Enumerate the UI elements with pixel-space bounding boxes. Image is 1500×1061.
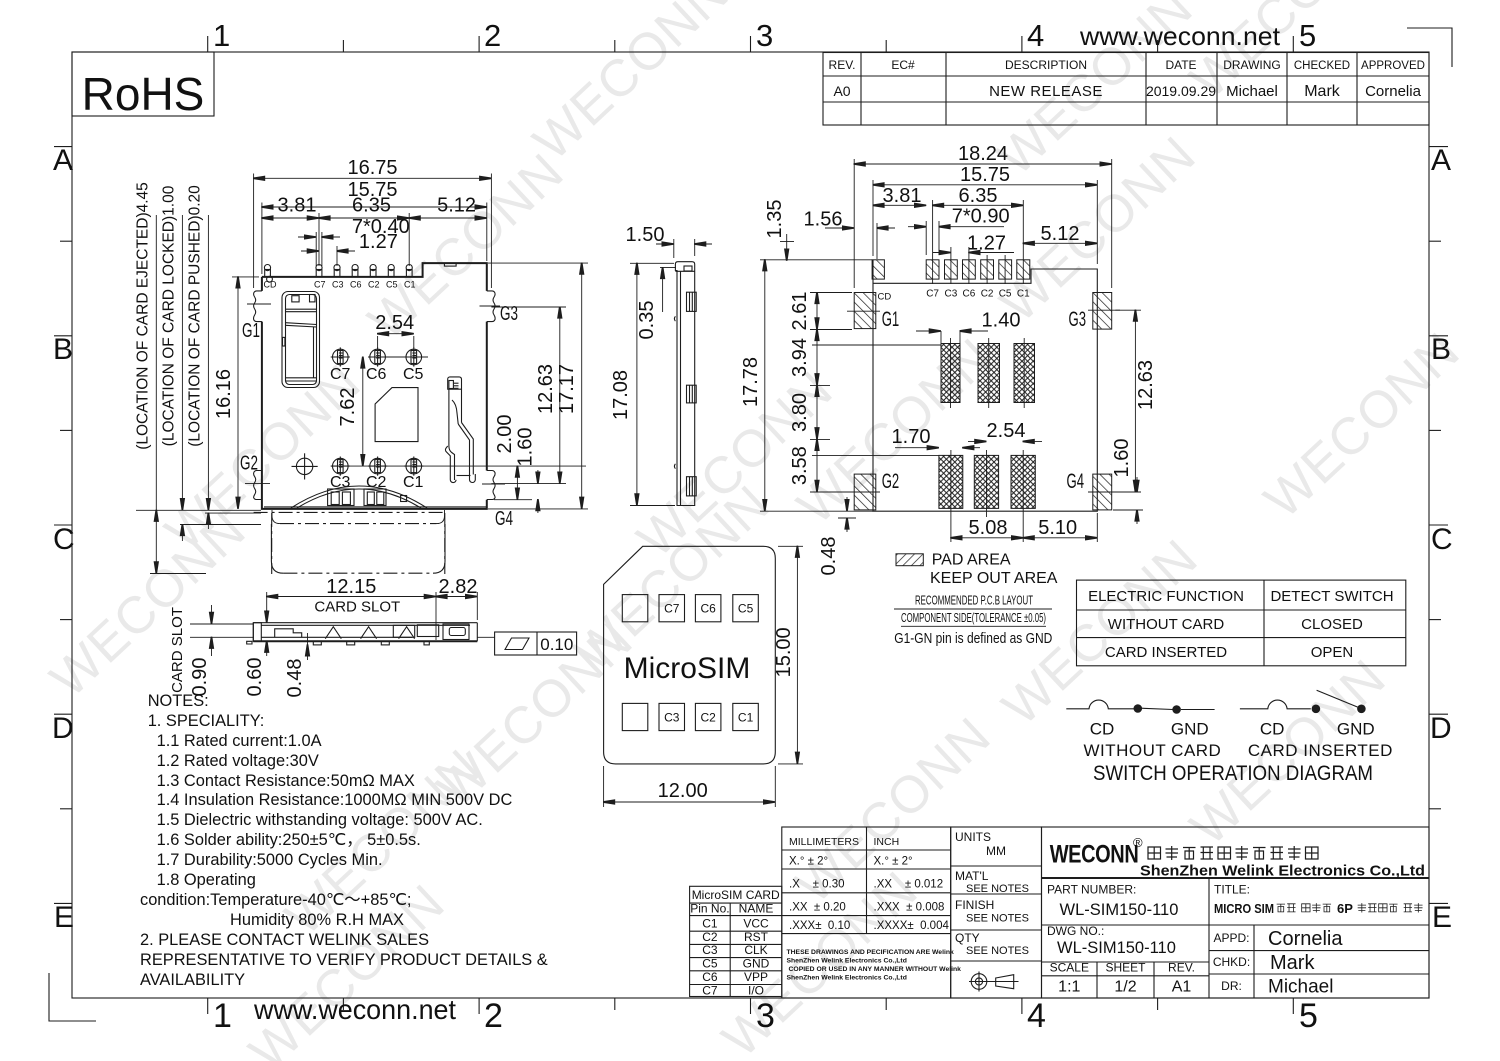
pcb outline (873, 260, 1097, 511)
svg-text:B: B (1431, 333, 1451, 366)
dim 16.75 (253, 174, 255, 289)
svg-text:2.00: 2.00 (494, 415, 516, 454)
svg-text:3.58: 3.58 (789, 446, 811, 485)
svg-text:.XXXX± 0.004: .XXXX± 0.004 (874, 920, 950, 932)
svg-text:C7: C7 (664, 602, 680, 616)
dim 1.60 (537, 470, 539, 484)
svg-text:5.12: 5.12 (1041, 223, 1080, 245)
svg-text:C7: C7 (926, 289, 939, 300)
svg-text:C: C (1431, 523, 1453, 556)
svg-text:WL-SIM150-110: WL-SIM150-110 (1060, 901, 1179, 919)
svg-text:B: B (53, 333, 73, 366)
contact C7 (331, 347, 350, 366)
pad C7 (926, 260, 939, 279)
location dims (136, 509, 261, 511)
svg-text:NAME: NAME (739, 902, 774, 916)
pad area legend (896, 554, 923, 566)
svg-text:A: A (1431, 144, 1451, 177)
dim 6.35 pcb (932, 200, 934, 255)
svg-text:G4: G4 (495, 508, 513, 530)
svg-text:C5: C5 (702, 956, 718, 970)
dim 7.62 (362, 357, 364, 466)
pin C6 (352, 265, 358, 277)
flatness callout (477, 636, 494, 638)
dim 17.78 (764, 260, 766, 511)
dim 2.54 front (377, 336, 379, 348)
svg-text:FINISH: FINISH (955, 898, 994, 912)
svg-text:1:1: 1:1 (1058, 979, 1080, 996)
svg-text:E: E (54, 901, 74, 934)
datum circle (292, 453, 318, 479)
svg-text:OPEN: OPEN (1311, 644, 1354, 661)
eject lever (275, 629, 302, 638)
svg-text:1.60: 1.60 (1111, 439, 1133, 478)
svg-text:Pin No.: Pin No. (690, 902, 729, 916)
svg-text:3.81: 3.81 (278, 195, 317, 217)
svg-text:D: D (52, 712, 74, 745)
open switch (1240, 700, 1311, 709)
svg-text:GND: GND (743, 956, 770, 970)
svg-text:Mark: Mark (1304, 83, 1341, 100)
pad C1 (1017, 260, 1030, 279)
svg-text:QTY: QTY (955, 931, 980, 945)
svg-text:INCH: INCH (874, 836, 900, 848)
pad C3 (945, 260, 958, 279)
svg-text:(LOCATION OF CARD PUSHED)0.20: (LOCATION OF CARD PUSHED)0.20 (187, 185, 204, 447)
corner trim marks (1407, 28, 1452, 67)
pin CD (264, 265, 272, 283)
svg-text:CARD SLOT: CARD SLOT (314, 599, 400, 616)
svg-text:MAT'L: MAT'L (955, 869, 989, 883)
svg-text:2. PLEASE CONTACT WELINK SALES: 2. PLEASE CONTACT WELINK SALES (140, 931, 429, 949)
svg-text:(LOCATION OF CARD EJECTED)4.45: (LOCATION OF CARD EJECTED)4.45 (135, 182, 152, 450)
dim 1.50 (673, 239, 675, 258)
svg-text:DRAWING: DRAWING (1223, 58, 1281, 72)
dim 15.75 pcb (872, 180, 874, 256)
svg-text:.XXX± 0.10: .XXX± 0.10 (789, 920, 850, 932)
units column (951, 827, 1042, 998)
svg-text:MicroSIM: MicroSIM (624, 652, 751, 685)
row centerlines (370, 356, 428, 358)
svg-text:WITHOUT CARD: WITHOUT CARD (1083, 741, 1221, 760)
svg-text:SWITCH OPERATION DIAGRAM: SWITCH OPERATION DIAGRAM (1093, 762, 1373, 785)
right cap (443, 624, 469, 640)
svg-text:Cornelia: Cornelia (1365, 83, 1422, 100)
svg-text:3: 3 (756, 997, 775, 1035)
svg-text:5.10: 5.10 (1038, 517, 1077, 539)
svg-text:CD: CD (878, 292, 892, 303)
svg-text:G1: G1 (882, 308, 900, 331)
svg-text:UNITS: UNITS (955, 830, 991, 844)
svg-text:CD: CD (1090, 720, 1115, 739)
svg-text:7*0.90: 7*0.90 (952, 206, 1010, 228)
svg-text:CLK: CLK (744, 943, 767, 957)
svg-text:C6: C6 (702, 970, 718, 984)
svg-text:16.16: 16.16 (213, 369, 235, 419)
svg-text:CHKD:: CHKD: (1213, 955, 1250, 969)
title block (1042, 827, 1430, 998)
svg-text:C1: C1 (738, 710, 754, 724)
svg-text:C2: C2 (981, 289, 994, 300)
G3 bump (487, 291, 495, 322)
svg-text:5.08: 5.08 (969, 517, 1008, 539)
dim 5.12 pcb (1023, 242, 1097, 244)
G2 bump (254, 471, 262, 500)
svg-text:1.2 Rated voltage:30V: 1.2 Rated voltage:30V (157, 752, 319, 770)
svg-text:3: 3 (756, 18, 773, 53)
contact C5 (404, 347, 423, 366)
svg-text:I/O: I/O (748, 983, 764, 997)
svg-text:0.48: 0.48 (818, 537, 840, 576)
svg-text:1.3 Contact Resistance:50mΩ MA: 1.3 Contact Resistance:50mΩ MAX (157, 772, 415, 790)
svg-text:GND: GND (1337, 720, 1375, 739)
svg-text:0.35: 0.35 (636, 301, 658, 340)
connector body outline (262, 263, 487, 509)
svg-text:GND: GND (1171, 720, 1209, 739)
svg-text:REPRESENTATIVE TO VERIFY PRODU: REPRESENTATIVE TO VERIFY PRODUCT DETAILS… (140, 951, 548, 969)
svg-text:CLOSED: CLOSED (1301, 616, 1363, 633)
construction lines (812, 344, 941, 346)
svg-text:D: D (1430, 712, 1452, 745)
card pads (622, 595, 648, 622)
svg-text:SEE NOTES: SEE NOTES (966, 913, 1029, 925)
svg-text:1.6 Solder ability:250±5℃， 5±0: 1.6 Solder ability:250±5℃， 5±0.5s. (157, 831, 421, 849)
pad C5 (999, 260, 1012, 279)
pin C1 (406, 265, 412, 277)
arc block left (328, 489, 354, 506)
card dashdot (254, 511, 446, 513)
svg-text:1.8 Operating: 1.8 Operating (157, 871, 256, 889)
svg-text:1: 1 (213, 997, 232, 1035)
dim 2.00 (494, 499, 532, 501)
svg-text:1: 1 (213, 18, 230, 53)
svg-text:3.94: 3.94 (789, 338, 811, 377)
projection symbol (969, 972, 1019, 992)
dim 12.63 front (491, 306, 566, 308)
spring bumps (325, 627, 341, 639)
dim 3.81 pcb (873, 204, 926, 206)
dim 1.70 (895, 447, 939, 449)
svg-text:3.81: 3.81 (883, 185, 922, 207)
svg-text:.XX ± 0.012: .XX ± 0.012 (874, 879, 944, 891)
svg-text:AVAILABILITY: AVAILABILITY (140, 971, 245, 989)
svg-text:2.82: 2.82 (439, 576, 478, 598)
svg-text:RoHS: RoHS (82, 68, 205, 120)
top ticks (207, 36, 209, 52)
svg-text:12.63: 12.63 (1135, 360, 1157, 410)
svg-text:C3: C3 (332, 280, 344, 290)
svg-text:PART NUMBER:: PART NUMBER: (1047, 883, 1136, 897)
detect spring (445, 377, 475, 483)
G4 bump (487, 471, 495, 500)
svg-text:C: C (53, 523, 75, 556)
svg-text:G1: G1 (242, 320, 260, 342)
svg-text:1.27: 1.27 (359, 231, 398, 253)
svg-text:17.17: 17.17 (556, 364, 578, 414)
svg-text:X.° ± 2°: X.° ± 2° (789, 856, 828, 868)
pad G4 (1093, 474, 1112, 510)
dim 3.81 6.35 5.12 (318, 213, 320, 266)
svg-text:.X ± 0.30: .X ± 0.30 (789, 879, 845, 891)
card ejected outline (271, 524, 283, 573)
svg-text:0.60: 0.60 (244, 658, 266, 697)
svg-text:C2: C2 (368, 280, 380, 290)
svg-text:12.00: 12.00 (658, 780, 708, 802)
svg-text:G2: G2 (882, 470, 900, 493)
svg-text:WITHOUT CARD: WITHOUT CARD (1108, 616, 1225, 633)
svg-text:THESE DRAWINGS AND PECIFICATIO: THESE DRAWINGS AND PECIFICATION ARE Weli… (787, 949, 955, 956)
svg-text:Michael: Michael (1226, 83, 1278, 100)
dim 7*0.90 (925, 221, 927, 255)
svg-text:12.63: 12.63 (535, 364, 557, 414)
title line with cjk (1214, 901, 1423, 916)
svg-text:A: A (53, 144, 73, 177)
svg-text:C5: C5 (999, 289, 1012, 300)
pad G1 (854, 293, 876, 329)
G1 bump (254, 291, 262, 322)
svg-text:1.40: 1.40 (982, 309, 1021, 331)
svg-text:G1-GN pin is defined as GND: G1-GN pin is defined as GND (894, 630, 1052, 647)
chinese company name (1148, 846, 1318, 860)
svg-text:APPD:: APPD: (1213, 931, 1249, 945)
svg-text:SHEET: SHEET (1105, 961, 1146, 975)
svg-text:CARD SLOT: CARD SLOT (169, 607, 186, 693)
card outline (604, 546, 776, 764)
svg-text:CD: CD (264, 280, 277, 290)
tab notch (444, 263, 456, 266)
svg-text:7.62: 7.62 (337, 388, 359, 427)
svg-text:C1: C1 (1017, 289, 1030, 300)
svg-text:1. SPECIALITY:: 1. SPECIALITY: (148, 712, 265, 730)
contact C1 (404, 457, 423, 476)
svg-text:12.15: 12.15 (326, 576, 376, 598)
pad centerlines (932, 255, 934, 284)
dim 1.35 (780, 241, 794, 243)
svg-text:MICRO SIM: MICRO SIM (1214, 901, 1274, 916)
svg-text:MM: MM (986, 844, 1006, 858)
side clip 2 (687, 385, 697, 403)
pin C7 (316, 265, 322, 277)
svg-text:G3: G3 (500, 303, 518, 325)
svg-text:DR:: DR: (1221, 979, 1242, 993)
side clip 3 (687, 477, 697, 496)
svg-text:1.1 Rated current:1.0A: 1.1 Rated current:1.0A (157, 732, 322, 750)
svg-text:NEW RELEASE: NEW RELEASE (989, 83, 1103, 100)
svg-text:0.90: 0.90 (189, 658, 211, 697)
dim 0.48 (838, 517, 856, 519)
svg-text:DETECT SWITCH: DETECT SWITCH (1270, 588, 1393, 605)
dim 0.48 (307, 633, 309, 645)
dim 12.63 pcb (1115, 309, 1141, 311)
arc block right (364, 489, 386, 506)
svg-text:.XX ± 0.20: .XX ± 0.20 (789, 902, 846, 914)
svg-text:C6: C6 (701, 602, 717, 616)
dim 0.90 (190, 623, 253, 625)
contact C6 (368, 347, 387, 366)
svg-text:NOTES:: NOTES: (148, 692, 209, 710)
svg-text:C2: C2 (701, 710, 717, 724)
pad C2 (981, 260, 994, 279)
svg-text:2.54: 2.54 (375, 312, 414, 334)
dim 1.56 (876, 223, 878, 259)
dim 15.00 (778, 545, 803, 547)
svg-text:VPP: VPP (744, 970, 768, 984)
ejector mechanism (282, 292, 320, 388)
svg-text:1.70: 1.70 (892, 426, 931, 448)
svg-text:DESCRIPTION: DESCRIPTION (1005, 58, 1087, 72)
svg-text:18.24: 18.24 (958, 143, 1008, 165)
svg-text:.XXX ± 0.008: .XXX ± 0.008 (874, 902, 945, 914)
svg-text:C7: C7 (702, 983, 718, 997)
svg-text:Humidity 80% R.H MAX: Humidity 80% R.H MAX (230, 911, 404, 929)
svg-text:C3: C3 (945, 289, 958, 300)
svg-text:3.80: 3.80 (789, 393, 811, 432)
svg-text:G3: G3 (1069, 308, 1087, 331)
svg-text:1/2: 1/2 (1114, 979, 1136, 996)
dim 18.24 (853, 159, 855, 288)
dim 12.00 (603, 766, 605, 807)
svg-text:SCALE: SCALE (1050, 961, 1089, 975)
svg-text:16.75: 16.75 (347, 157, 397, 179)
svg-text:ELECTRIC FUNCTION: ELECTRIC FUNCTION (1088, 588, 1244, 605)
svg-text:C6: C6 (350, 280, 362, 290)
svg-text:C6: C6 (366, 366, 387, 383)
svg-text:5: 5 (1299, 997, 1318, 1035)
svg-text:C1: C1 (702, 917, 718, 931)
side body (675, 262, 694, 506)
svg-text:WECONN: WECONN (1050, 840, 1139, 868)
svg-text:(LOCATION OF CARD LOCKED)1.00: (LOCATION OF CARD LOCKED)1.00 (161, 185, 178, 446)
closed switch (1066, 700, 1135, 709)
revision table (823, 53, 1429, 126)
svg-text:COMPONENT SIDE(TOLERANCE ±0.05: COMPONENT SIDE(TOLERANCE ±0.05) (901, 611, 1046, 625)
pin C2 (370, 265, 376, 277)
svg-text:5.12: 5.12 (437, 195, 476, 217)
svg-text:4: 4 (1027, 18, 1044, 53)
svg-text:MILLIMETERS: MILLIMETERS (789, 836, 859, 848)
pad G2 (854, 474, 876, 510)
dim 17.08 (630, 262, 674, 264)
svg-text:C5: C5 (403, 366, 424, 383)
dim 5.08 5.10 (1096, 513, 1098, 542)
bottom arc (291, 486, 427, 508)
contact C2 (368, 457, 387, 476)
svg-text:www.weconn.net: www.weconn.net (253, 994, 456, 1025)
svg-text:KEEP OUT AREA: KEEP OUT AREA (930, 570, 1058, 587)
svg-text:X.° ± 2°: X.° ± 2° (874, 856, 913, 868)
svg-text:SEE NOTES: SEE NOTES (966, 945, 1029, 957)
dim 0.35 (660, 267, 676, 269)
G centerlines (247, 303, 271, 305)
svg-text:2.54: 2.54 (987, 420, 1026, 442)
svg-text:1.7 Durability:5000 Cycles Min: 1.7 Durability:5000 Cycles Min. (157, 851, 383, 869)
svg-text:1.4 Insulation Resistance:1000: 1.4 Insulation Resistance:1000MΩ MIN 500… (157, 791, 513, 809)
keepout areas top (941, 344, 960, 403)
svg-text:1.60: 1.60 (515, 428, 537, 467)
dim 12.15 / 2.82 (266, 592, 268, 623)
bottom ticks (207, 998, 209, 1014)
center cutout (375, 388, 418, 442)
tolerance table (782, 827, 961, 998)
svg-text:RECOMMENDED P.C.B LAYOUT: RECOMMENDED P.C.B LAYOUT (915, 594, 1033, 608)
svg-text:CHECKED: CHECKED (1294, 60, 1350, 72)
MicroSIM pin table (690, 886, 782, 997)
pad C6 (963, 260, 976, 279)
svg-text:APPROVED: APPROVED (1361, 60, 1425, 72)
dim 17.17 (488, 262, 588, 264)
pad CD (872, 260, 884, 279)
dim 1.40 (940, 331, 942, 344)
svg-text:C7: C7 (330, 366, 351, 383)
dim 1.27 (336, 246, 338, 266)
svg-text:C1: C1 (404, 280, 416, 290)
svg-text:condition:Temperature-40℃～+85℃: condition:Temperature-40℃～+85℃; (140, 891, 411, 909)
svg-text:6.35: 6.35 (959, 185, 998, 207)
svg-text:CARD INSERTED: CARD INSERTED (1248, 741, 1393, 760)
dim 1.60 pcb (1113, 509, 1143, 511)
svg-text:2019.09.29: 2019.09.29 (1146, 83, 1216, 99)
svg-text:VCC: VCC (743, 917, 769, 931)
svg-text:1.27: 1.27 (967, 232, 1006, 254)
svg-text:15.00: 15.00 (773, 627, 795, 677)
svg-text:Michael: Michael (1268, 977, 1333, 998)
svg-text:REV.: REV. (829, 58, 856, 72)
svg-text:5: 5 (1299, 18, 1316, 53)
svg-text:6P: 6P (1337, 901, 1353, 916)
dim 7*0.40 (315, 232, 317, 266)
svg-text:A0: A0 (833, 83, 850, 99)
feet (313, 641, 321, 645)
svg-text:C2: C2 (702, 930, 718, 944)
svg-text:17.78: 17.78 (740, 357, 762, 407)
svg-text:C1: C1 (403, 474, 424, 491)
svg-text:1.5 Dielectric withstanding vo: 1.5 Dielectric withstanding voltage: 500… (157, 811, 483, 829)
svg-text:C5: C5 (738, 602, 754, 616)
svg-text:0.48: 0.48 (284, 659, 306, 698)
svg-text:C6: C6 (963, 289, 976, 300)
keepout areas bottom (939, 455, 963, 508)
left letters (54, 146, 72, 148)
side clip 1 (687, 292, 697, 311)
svg-text:DATE: DATE (1165, 58, 1196, 72)
svg-text:1.56: 1.56 (804, 208, 843, 230)
dim stack 2.61 3.94 3.80 3.58 (810, 292, 852, 294)
svg-text:C5: C5 (386, 280, 398, 290)
svg-text:www.weconn.net: www.weconn.net (1079, 21, 1281, 51)
svg-text:DWG NO.:: DWG NO.: (1047, 924, 1104, 938)
dim 2.54 pcb (968, 440, 987, 442)
svg-text:A1: A1 (1172, 979, 1192, 996)
svg-text:C3: C3 (702, 943, 718, 957)
svg-text:PAD AREA: PAD AREA (932, 552, 1011, 569)
svg-text:G2: G2 (240, 453, 258, 475)
RoHS box (72, 52, 214, 120)
svg-text:ShenZhen Welink Electronics Co: ShenZhen Welink Electronics Co.,Ltd (787, 975, 907, 982)
svg-text:G4: G4 (1067, 470, 1085, 493)
svg-text:WL-SIM150-110: WL-SIM150-110 (1057, 939, 1176, 957)
dim 16.16 (232, 276, 259, 278)
svg-text:MicroSIM CARD: MicroSIM CARD (692, 888, 780, 902)
svg-text:C3: C3 (664, 710, 680, 724)
right letters (1429, 146, 1448, 148)
svg-text:17.08: 17.08 (610, 370, 632, 420)
svg-text:2: 2 (484, 997, 503, 1035)
svg-text:®: ® (1133, 835, 1143, 850)
svg-text:Mark: Mark (1270, 952, 1315, 974)
svg-text:2.61: 2.61 (789, 292, 811, 331)
dim 1.27 pcb (950, 247, 952, 255)
svg-text:EC#: EC# (891, 58, 915, 72)
